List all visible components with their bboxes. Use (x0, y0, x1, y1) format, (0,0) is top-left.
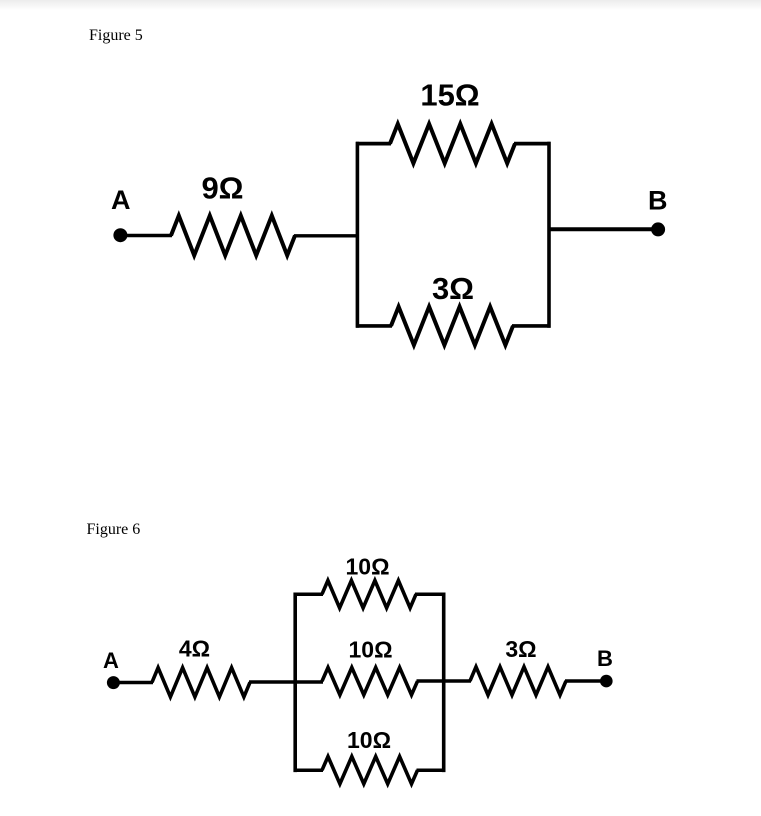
label 3ohm (fig5) (432, 271, 474, 306)
svg-text:A: A (111, 185, 131, 215)
svg-text:Figure 5: Figure 5 (89, 27, 143, 44)
svg-text:B: B (597, 646, 613, 671)
label 3ohm (fig6) (505, 636, 536, 662)
resistor 3ohm (fig6) (470, 667, 566, 695)
wire middle resistor to R 3ohm (through right junction) (417, 679, 472, 683)
label 10ohm top (345, 554, 389, 580)
svg-text:15Ω: 15Ω (420, 78, 479, 113)
svg-text:A: A (103, 648, 119, 673)
node B (figure 6) (597, 646, 613, 687)
wire R 4ohm to middle resistor (through left junction) (249, 680, 323, 684)
parallel box right vertical (fig5) (547, 142, 551, 328)
resistor 15ohm (390, 124, 515, 163)
bottom branch wire left (fig6) (294, 769, 324, 773)
parallel box left vertical (fig5) (356, 142, 360, 328)
bottom branch wire left (fig5) (356, 324, 392, 328)
svg-text:10Ω: 10Ω (347, 727, 391, 753)
svg-text:10Ω: 10Ω (348, 636, 392, 662)
wire R 9ohm to parallel box (294, 234, 358, 237)
label 10ohm bottom (347, 727, 391, 753)
parallel box right vertical (fig6) (442, 593, 446, 773)
label 15ohm (420, 78, 479, 113)
svg-text:3Ω: 3Ω (505, 636, 536, 662)
top branch wire right (fig6) (415, 592, 445, 596)
svg-text:Figure 6: Figure 6 (87, 521, 141, 538)
bottom branch wire right (fig5) (512, 324, 551, 328)
svg-text:9Ω: 9Ω (201, 171, 243, 206)
label 10ohm middle (348, 636, 392, 662)
node B (figure 5) (648, 186, 668, 237)
svg-text:3Ω: 3Ω (432, 271, 474, 306)
parallel box left vertical (fig6) (293, 593, 297, 773)
wire A to R 4ohm (113, 681, 153, 684)
top branch wire left (fig5) (356, 142, 391, 146)
resistor 10ohm bottom (322, 757, 418, 784)
svg-text:10Ω: 10Ω (345, 554, 389, 580)
label 9ohm (201, 171, 243, 206)
wire parallel box to node B (fig5) (549, 227, 658, 231)
resistor 10ohm middle (322, 668, 418, 695)
node A (figure 5) (111, 185, 131, 242)
wire R 3ohm to node B (fig6) (565, 679, 606, 682)
resistor 4ohm (152, 668, 250, 697)
bottom branch wire right (fig6) (417, 769, 446, 773)
top branch wire left (fig6) (294, 592, 324, 596)
svg-text:B: B (648, 186, 668, 216)
figure 5 caption (89, 27, 143, 44)
node A (figure 6) (103, 648, 120, 689)
resistor 9ohm (171, 216, 295, 256)
top branch wire right (fig5) (514, 142, 551, 146)
svg-text:4Ω: 4Ω (179, 636, 210, 662)
resistor 10ohm top (322, 581, 416, 608)
wire A to R 9ohm (120, 234, 172, 238)
page top shade (0, 0, 761, 10)
label 4ohm (179, 636, 210, 662)
figure 6 caption (87, 521, 141, 538)
resistor 3ohm (fig5) (391, 307, 513, 345)
